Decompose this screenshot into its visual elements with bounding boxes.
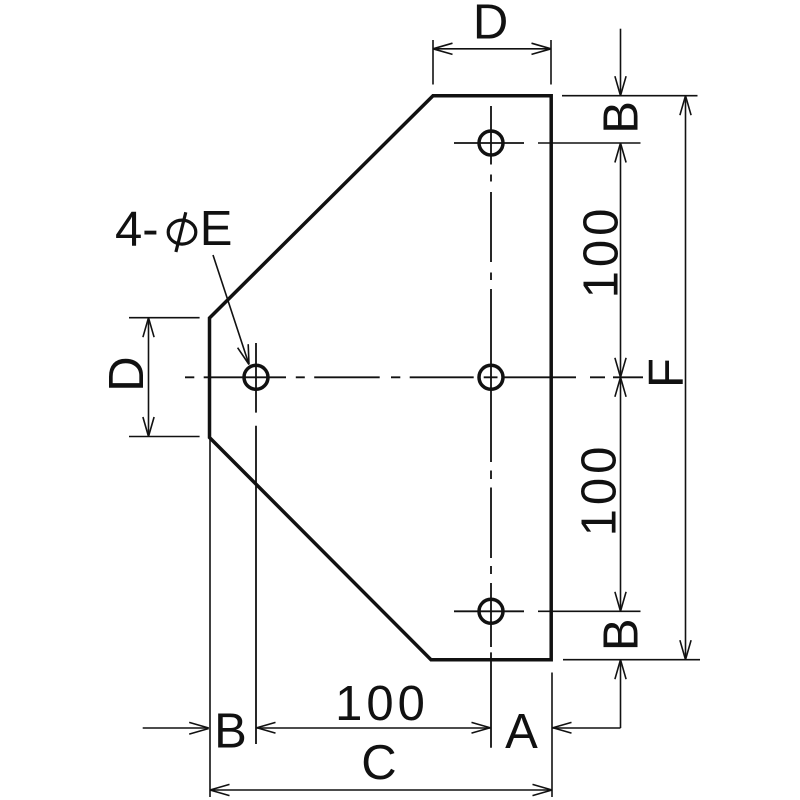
svg-text:B: B: [594, 101, 648, 134]
svg-text:4-: 4-: [115, 203, 159, 257]
extension from top hole to right: [538, 142, 641, 144]
dim A bottom: arrow left: [552, 722, 572, 733]
svg-text:A: A: [505, 705, 538, 759]
dim 100 lower right: arrow down: [615, 592, 626, 612]
extension of bottom edge to right: [563, 659, 700, 661]
bottom right extension line x=552: [551, 673, 553, 798]
hole left: [244, 365, 268, 389]
dim D left: arrow up: [143, 318, 154, 338]
dim D left: arrow down: [143, 417, 154, 437]
svg-text:100: 100: [335, 677, 429, 731]
hole top: [479, 131, 503, 155]
dim B top-right: arrow down: [615, 76, 626, 96]
dim B lower-right: outside arrow line: [620, 660, 622, 728]
horizontal centerline through bottom hole: [454, 610, 524, 612]
dim 100 upper right: dimension line: [620, 143, 622, 377]
leader arrow: [238, 344, 249, 364]
dim 100 upper right: arrow down: [615, 358, 626, 378]
horizontal centerline through top hole: [454, 142, 524, 144]
hole middle: [479, 365, 503, 389]
dim B top-right: outside arrow line: [620, 29, 622, 96]
leader line to left hole: [213, 255, 249, 365]
vertical centerline through holes x=491: [490, 106, 492, 748]
dim 100 lower right: dimension line: [620, 377, 622, 611]
dim A bottom: outside arrow line: [552, 727, 621, 729]
dim D left: dimension line: [148, 318, 150, 437]
label phi symbol: [168, 220, 196, 244]
svg-text:D: D: [473, 0, 508, 50]
dim F: arrow down: [680, 640, 691, 660]
dim D left: extension lines: [129, 317, 200, 319]
svg-text:100: 100: [575, 205, 629, 299]
horizontal centerline y=377: [185, 376, 643, 378]
dim B lower-right: arrow up: [615, 660, 626, 680]
dim 100 lower right: arrow up: [615, 377, 626, 397]
extension of top edge to right: [562, 95, 698, 97]
dim 100 bottom: dimension line: [256, 727, 491, 729]
plate outline: [210, 96, 552, 660]
bottom left extension line x=210: [209, 438, 211, 798]
svg-text:B: B: [595, 618, 649, 651]
dim F: dimension line: [685, 96, 687, 660]
dim C: dimension line: [210, 789, 552, 791]
dim B bottom: arrow right: [189, 722, 209, 734]
vertical centerline through left hole x=256: [255, 343, 257, 744]
svg-text:D: D: [100, 356, 154, 391]
dim D top: dimension line: [433, 48, 551, 50]
dim 100 bottom: arrow right: [472, 722, 492, 733]
svg-text:C: C: [361, 736, 396, 790]
svg-text:F: F: [640, 358, 694, 388]
dim C: arrow left: [210, 784, 230, 795]
dim D top: extension lines: [432, 40, 434, 85]
dim B bottom: outside arrow line: [143, 727, 209, 729]
dim F: arrow up: [680, 96, 691, 116]
dim D top: right arrow: [532, 43, 552, 54]
svg-text:100: 100: [573, 443, 627, 537]
dim D top: left arrow: [433, 43, 453, 54]
hole bottom: [479, 599, 503, 623]
extension from bottom hole to right: [538, 610, 641, 612]
dim C: arrow right: [533, 784, 553, 795]
svg-text:B: B: [214, 705, 247, 759]
dim 100 upper right: arrow up: [615, 143, 626, 163]
svg-text:E: E: [200, 202, 233, 256]
dim 100 bottom: arrow left: [256, 722, 276, 733]
